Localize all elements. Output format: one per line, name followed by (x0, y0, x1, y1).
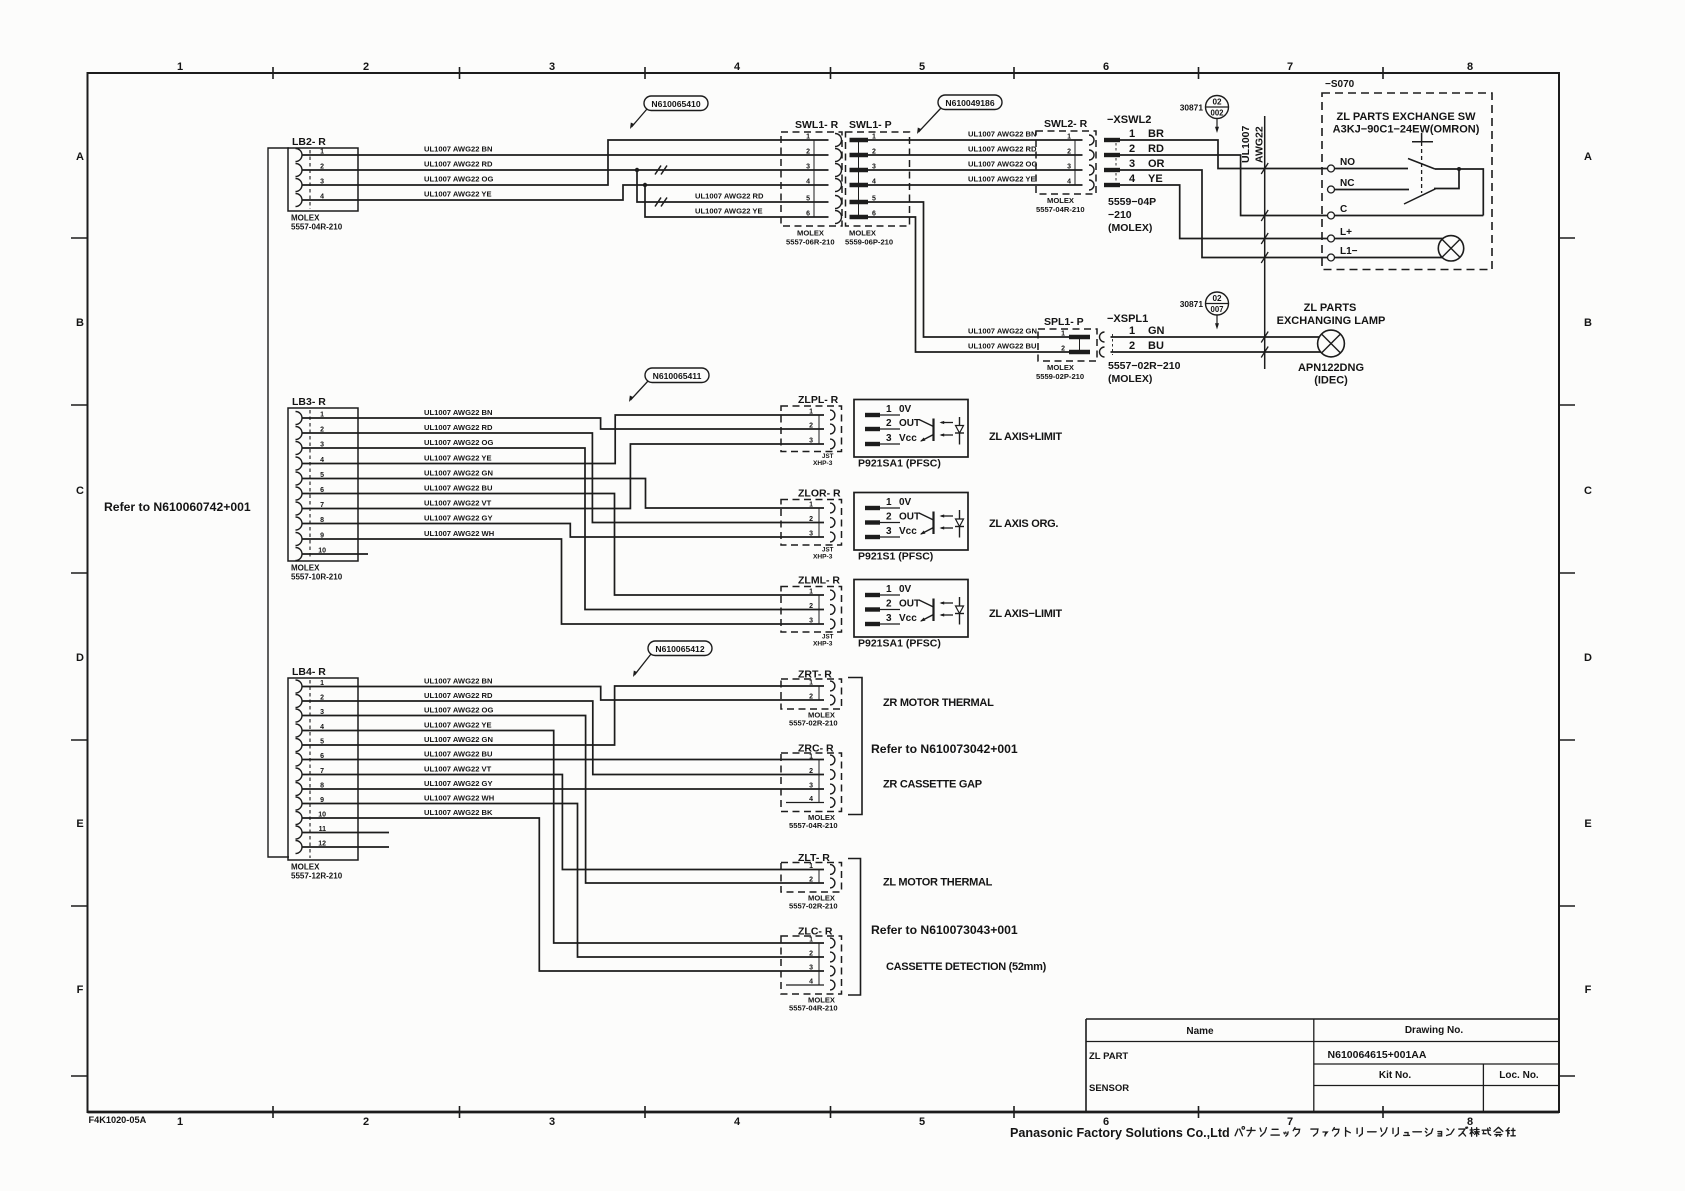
connector ZLML- R (781, 575, 842, 648)
frame row letters left (76, 151, 84, 996)
connector SWL1-P (845, 119, 910, 247)
company name Panasonic Factory Solutions (1010, 1126, 1230, 1140)
svg-text:UL1007 AWG22 GY: UL1007 AWG22 GY (424, 514, 493, 523)
svg-text:002: 002 (1210, 109, 1224, 118)
svg-text:1: 1 (886, 497, 892, 508)
svg-text:F: F (1585, 984, 1592, 996)
svg-text:XHP-3: XHP-3 (813, 554, 833, 561)
svg-text:Refer to N610073043+001: Refer to N610073043+001 (871, 923, 1018, 937)
svg-text:SWL1- R: SWL1- R (795, 119, 839, 131)
svg-text:UL1007: UL1007 (1240, 125, 1252, 163)
connector -XSPL1 receptacle 5557-02R-210 (1100, 313, 1181, 385)
svg-text:4: 4 (734, 61, 741, 73)
svg-text:1: 1 (809, 863, 813, 870)
wire YE XSWL2 pin4 to switch L+ (1120, 185, 1328, 239)
svg-text:3: 3 (809, 438, 813, 445)
svg-text:CASSETTE DETECTION (52mm): CASSETTE DETECTION (52mm) (886, 961, 1047, 973)
wire GY LB4 pin8 to ZRC-R pin3 (302, 779, 824, 789)
svg-text:UL1007 AWG22 RD: UL1007 AWG22 RD (424, 691, 493, 700)
svg-text:2: 2 (809, 951, 813, 958)
svg-text:JST: JST (822, 453, 834, 460)
svg-text:OUT: OUT (899, 418, 920, 429)
frame row letters right (1584, 151, 1592, 996)
wire RD LB3 pin2 to ZLOR-R pin2 (302, 423, 824, 523)
svg-text:02: 02 (1212, 98, 1222, 107)
svg-text:(IDEC): (IDEC) (1314, 375, 1348, 387)
wire YE branch to SWL1-R pin6 (645, 185, 829, 217)
svg-text:UL1007 AWG22 BU: UL1007 AWG22 BU (424, 484, 493, 493)
stub wire LB4 pin12 (302, 846, 389, 848)
switch title ZL PARTS EXCHANGE SW (1333, 111, 1480, 136)
svg-text:6: 6 (806, 211, 810, 218)
svg-text:EXCHANGING LAMP: EXCHANGING LAMP (1277, 315, 1386, 327)
connector LB3-R (288, 396, 358, 582)
svg-text:5559-06P-210: 5559-06P-210 (845, 238, 893, 247)
svg-text:UL1007 AWG22 OG: UL1007 AWG22 OG (424, 706, 493, 715)
svg-text:1: 1 (1061, 331, 1065, 338)
svg-text:ZRT- R: ZRT- R (798, 669, 832, 681)
svg-text:UL1007 AWG22 RD: UL1007 AWG22 RD (695, 192, 764, 201)
svg-text:1: 1 (809, 409, 813, 416)
svg-text:UL1007 AWG22 VT: UL1007 AWG22 VT (424, 765, 492, 774)
svg-text:5: 5 (919, 1116, 925, 1128)
svg-text:UL1007 AWG22 BU: UL1007 AWG22 BU (424, 750, 493, 759)
svg-text:N610065411: N610065411 (653, 371, 702, 381)
wire YE LB4 pin4 to ZLC-R pin1 (302, 721, 824, 944)
frame column numbers bottom (177, 1116, 1473, 1128)
svg-text:30871: 30871 (1180, 299, 1204, 309)
svg-text:3: 3 (886, 526, 892, 537)
svg-text:2: 2 (1067, 149, 1071, 156)
svg-text:JST: JST (822, 634, 834, 641)
svg-text:A: A (1584, 151, 1592, 163)
connector SPL1-P (1036, 316, 1097, 381)
svg-text:UL1007 AWG22 BU: UL1007 AWG22 BU (968, 342, 1037, 351)
svg-text:3: 3 (809, 965, 813, 972)
svg-text:2: 2 (809, 768, 813, 775)
wire BN LB2 pin1 to SWL1-R pin2 (302, 145, 829, 156)
svg-text:UL1007 AWG22 BN: UL1007 AWG22 BN (424, 408, 493, 417)
svg-text:UL1007 AWG22 OG: UL1007 AWG22 OG (424, 438, 493, 447)
svg-text:1: 1 (809, 754, 813, 761)
frame column ticks bottom (273, 1106, 1383, 1118)
wire BN SWL1-P pin1 to SWL2-R pin1 (868, 130, 1083, 141)
svg-text:1: 1 (809, 589, 813, 596)
svg-text:A: A (76, 151, 84, 163)
svg-text:B: B (76, 317, 84, 329)
svg-text:UL1007 AWG22 BN: UL1007 AWG22 BN (968, 130, 1037, 139)
svg-text:BR: BR (1148, 128, 1164, 140)
svg-text:UL1007 AWG22 YE: UL1007 AWG22 YE (968, 175, 1036, 184)
stub wire LB3 pin10 (302, 553, 368, 555)
svg-text:N610049186: N610049186 (945, 98, 994, 108)
wire WH LB3 pin9 to ZLML-R pin3 (302, 529, 824, 624)
svg-text:3: 3 (809, 783, 813, 790)
wire GY LB3 pin8 to ZLOR-R pin3 (302, 514, 824, 538)
junction dot YE branch (643, 183, 647, 187)
revision balloon 30871 02/002 (1180, 96, 1229, 134)
svg-text:2: 2 (886, 418, 892, 429)
svg-text:E: E (76, 818, 83, 830)
svg-text:1: 1 (177, 61, 183, 73)
harness bus line grouping LB2/LB3/LB4 (268, 148, 289, 857)
svg-text:UL1007 AWG22 WH: UL1007 AWG22 WH (424, 529, 494, 538)
svg-text:N610065412: N610065412 (655, 644, 704, 654)
wire WH LB4 pin9 to ZLC-R pin2 (302, 794, 824, 958)
svg-text:5557-12R-210: 5557-12R-210 (291, 872, 343, 881)
svg-text:2: 2 (809, 603, 813, 610)
callout balloon N610049186 (938, 95, 1002, 110)
wire YE LB3 pin4 to ZLPL-R pin1 (302, 415, 824, 464)
svg-text:UL1007 AWG22 VT: UL1007 AWG22 VT (424, 499, 492, 508)
switch plunger (1412, 133, 1433, 193)
connector ZLT-R (781, 852, 842, 911)
svg-text:Vcc: Vcc (899, 613, 917, 624)
svg-text:E: E (1584, 818, 1591, 830)
switch terminal L+ (1328, 227, 1444, 242)
wire OG LB4 pin3 to ZLT-R pin2 (302, 706, 824, 884)
connector ZRT-R (781, 669, 842, 728)
switch terminal NC (1328, 178, 1410, 193)
svg-text:3: 3 (886, 613, 892, 624)
svg-text:5557-04R-210: 5557-04R-210 (291, 223, 343, 232)
connector SWL1-R (781, 119, 842, 247)
drawing frame border (88, 73, 1560, 1112)
svg-text:3: 3 (806, 164, 810, 171)
stub wire LB4 pin11 (302, 832, 389, 834)
title block table (1086, 1019, 1559, 1112)
svg-text:1: 1 (886, 584, 892, 595)
svg-text:2: 2 (806, 149, 810, 156)
svg-text:ZLOR- R: ZLOR- R (798, 488, 841, 500)
svg-text:UL1007 AWG22 RD: UL1007 AWG22 RD (968, 145, 1037, 154)
wire VT LB4 pin7 to ZLT-R pin1 (302, 765, 824, 870)
svg-text:UL1007 AWG22 GN: UL1007 AWG22 GN (424, 735, 493, 744)
wire SWL1-P pin6 to SPL1-P pin2 (868, 217, 1069, 352)
svg-text:ZR MOTOR THERMAL: ZR MOTOR THERMAL (883, 697, 994, 709)
svg-text:2: 2 (1129, 143, 1135, 155)
photosensor P921SA1 (PFSC) (854, 400, 968, 470)
svg-text:MOLEX: MOLEX (849, 229, 876, 238)
wire OG SWL1-P pin3 to SWL2-R pin3 (868, 160, 1083, 171)
svg-text:3: 3 (809, 531, 813, 538)
svg-text:2: 2 (1061, 346, 1065, 353)
svg-text:UL1007 AWG22 BN: UL1007 AWG22 BN (424, 145, 493, 154)
svg-text:8: 8 (1467, 1116, 1473, 1128)
svg-text:1: 1 (809, 937, 813, 944)
svg-text:P921SA1 (PFSC): P921SA1 (PFSC) (858, 638, 941, 650)
svg-text:(MOLEX): (MOLEX) (1108, 222, 1152, 234)
svg-text:5559−04P: 5559−04P (1108, 196, 1156, 208)
svg-text:Refer to N610073042+001: Refer to N610073042+001 (871, 742, 1018, 756)
svg-text:2: 2 (886, 599, 892, 610)
svg-text:AWG22: AWG22 (1254, 126, 1266, 163)
svg-text:−XSPL1: −XSPL1 (1107, 313, 1148, 325)
svg-text:3: 3 (549, 61, 555, 73)
svg-text:UL1007 AWG22 OG: UL1007 AWG22 OG (424, 175, 493, 184)
svg-text:D: D (76, 652, 84, 664)
svg-text:UL1007 AWG22 BN: UL1007 AWG22 BN (424, 677, 493, 686)
switch enclosure -S070 dashed box (1322, 79, 1492, 270)
svg-text:YE: YE (1148, 173, 1163, 185)
svg-text:8: 8 (1467, 61, 1473, 73)
svg-text:5: 5 (806, 196, 810, 203)
svg-text:N610064615+001AA: N610064615+001AA (1328, 1049, 1427, 1061)
svg-text:XHP-3: XHP-3 (813, 641, 833, 648)
svg-text:OUT: OUT (899, 599, 920, 610)
svg-text:P921SA1 (PFSC): P921SA1 (PFSC) (858, 458, 941, 470)
wire OG LB3 pin3 to ZLML-R pin2 (302, 438, 824, 610)
svg-text:B: B (1584, 317, 1592, 329)
svg-text:1: 1 (1129, 325, 1135, 337)
wire RD SWL1-P pin2 to SWL2-R pin2 (868, 145, 1083, 156)
svg-text:ZLC- R: ZLC- R (798, 926, 833, 938)
svg-text:3: 3 (886, 433, 892, 444)
svg-text:LB4- R: LB4- R (292, 666, 326, 678)
svg-text:UL1007 AWG22 RD: UL1007 AWG22 RD (424, 160, 493, 169)
svg-text:UL1007 AWG22 WH: UL1007 AWG22 WH (424, 794, 494, 803)
svg-text:Vcc: Vcc (899, 526, 917, 537)
svg-text:XHP-3: XHP-3 (813, 460, 833, 467)
group bracket ZR sensors (848, 678, 862, 815)
svg-text:ZR CASSETTE GAP: ZR CASSETTE GAP (883, 779, 982, 791)
svg-text:02: 02 (1212, 294, 1222, 303)
connector ZLC-R (781, 926, 842, 1013)
svg-text:MOLEX: MOLEX (291, 863, 320, 872)
switch terminal NO (1328, 157, 1409, 172)
svg-text:N610065410: N610065410 (651, 99, 700, 109)
svg-text:F: F (77, 984, 84, 996)
connector ZLOR- R (781, 488, 842, 561)
svg-text:ZL PART: ZL PART (1089, 1051, 1128, 1062)
wire RD XSWL2 pin2 to switch C (1120, 155, 1328, 216)
photosensor P921S1 (PFSC) (854, 493, 968, 563)
svg-text:0V: 0V (899, 497, 912, 508)
svg-text:Vcc: Vcc (899, 433, 917, 444)
callout balloon N610065410 (644, 96, 708, 111)
switch common link (1434, 169, 1483, 216)
svg-text:ZLT- R: ZLT- R (798, 852, 830, 864)
svg-text:ZL AXIS−LIMIT: ZL AXIS−LIMIT (989, 608, 1062, 620)
svg-text:Refer to N610060742+001: Refer to N610060742+001 (104, 500, 251, 514)
svg-text:−S070: −S070 (1325, 79, 1355, 90)
svg-text:LB2- R: LB2- R (292, 136, 326, 148)
switch NC contact blade (1404, 189, 1436, 204)
svg-text:4: 4 (1129, 173, 1136, 185)
svg-text:SWL2- R: SWL2- R (1044, 118, 1088, 130)
svg-text:L+: L+ (1340, 227, 1352, 238)
svg-text:(MOLEX): (MOLEX) (1108, 373, 1152, 385)
svg-text:2: 2 (809, 423, 813, 430)
junction dot RD branch (635, 168, 639, 172)
svg-text:UL1007 AWG22 YE: UL1007 AWG22 YE (424, 190, 492, 199)
wire SWL1-P pin5 to SPL1-P pin1 (868, 202, 1069, 337)
wire RD branch to SWL1-R pin5 (637, 170, 829, 207)
svg-text:P921S1 (PFSC): P921S1 (PFSC) (858, 551, 933, 563)
svg-text:2: 2 (886, 512, 892, 523)
svg-text:UL1007 AWG22 GN: UL1007 AWG22 GN (968, 327, 1037, 336)
svg-text:C: C (1584, 485, 1592, 497)
svg-text:5557-04R-210: 5557-04R-210 (789, 1004, 838, 1013)
wire YE LB2 pin4 to SWL1-R pin4 (302, 185, 829, 200)
svg-text:MOLEX: MOLEX (1047, 196, 1074, 205)
svg-text:ZLML- R: ZLML- R (798, 575, 840, 587)
svg-text:A3KJ−90C1−24EW(OMRON): A3KJ−90C1−24EW(OMRON) (1333, 124, 1480, 136)
lamp ZL PARTS EXCHANGING LAMP (1277, 302, 1386, 387)
svg-text:MOLEX: MOLEX (1047, 363, 1074, 372)
connector -XSWL2 plug 5559-04P-210 (1104, 114, 1165, 234)
svg-text:ZL AXIS+LIMIT: ZL AXIS+LIMIT (989, 431, 1062, 443)
svg-text:5557-02R-210: 5557-02R-210 (789, 719, 838, 728)
svg-text:Loc. No.: Loc. No. (1499, 1070, 1539, 1081)
wire BN LB4 pin1 to ZRT-R pin2 (302, 677, 824, 701)
svg-text:UL1007 AWG22 BK: UL1007 AWG22 BK (424, 808, 493, 817)
svg-text:MOLEX: MOLEX (291, 564, 320, 573)
svg-text:5557-02R-210: 5557-02R-210 (789, 902, 838, 911)
wire RD LB4 pin2 to ZRC-R pin2 (302, 691, 824, 775)
svg-text:JST: JST (822, 547, 834, 554)
svg-text:SWL1- P: SWL1- P (849, 119, 892, 131)
frame column ticks top (273, 67, 1383, 79)
wire RD LB2 pin2 to SWL1-R pin3 (302, 160, 829, 175)
svg-text:OUT: OUT (899, 512, 920, 523)
svg-text:5: 5 (919, 61, 925, 73)
svg-text:BU: BU (1148, 340, 1164, 352)
svg-text:4: 4 (806, 179, 810, 186)
svg-text:Kit No.: Kit No. (1379, 1070, 1411, 1081)
svg-text:0V: 0V (899, 584, 912, 595)
switch terminal L1- (1328, 246, 1443, 261)
svg-text:30871: 30871 (1180, 103, 1204, 113)
svg-text:2: 2 (363, 61, 369, 73)
svg-text:Drawing No.: Drawing No. (1405, 1025, 1464, 1036)
switch common junction dot (1457, 167, 1461, 171)
svg-text:GN: GN (1148, 325, 1165, 337)
svg-text:3: 3 (549, 1116, 555, 1128)
svg-text:6: 6 (1103, 61, 1109, 73)
svg-text:UL1007 AWG22 OG: UL1007 AWG22 OG (968, 160, 1037, 169)
switch lamp symbol (1438, 236, 1463, 261)
callout balloon N610065411 (645, 368, 709, 383)
revision balloon 30871 02/007 (1180, 292, 1229, 330)
wire OR XSWL2 pin3 to switch L1- (1120, 170, 1328, 258)
svg-text:2: 2 (809, 694, 813, 701)
svg-text:1: 1 (886, 404, 892, 415)
svg-text:MOLEX: MOLEX (797, 229, 824, 238)
svg-text:1: 1 (809, 502, 813, 509)
svg-text:OR: OR (1148, 158, 1165, 170)
svg-text:0V: 0V (899, 404, 912, 415)
svg-text:SPL1- P: SPL1- P (1044, 316, 1084, 328)
frame row ticks left (71, 238, 88, 1076)
svg-text:5559-02P-210: 5559-02P-210 (1036, 372, 1084, 381)
svg-text:−XSWL2: −XSWL2 (1107, 114, 1151, 126)
connector ZRC-R (781, 743, 842, 831)
svg-text:ZLPL- R: ZLPL- R (798, 394, 839, 406)
svg-text:ZL PARTS: ZL PARTS (1304, 302, 1357, 314)
svg-text:007: 007 (1210, 305, 1223, 314)
svg-text:F4K1020-05A: F4K1020-05A (89, 1115, 147, 1125)
svg-text:MOLEX: MOLEX (291, 214, 320, 223)
svg-text:2: 2 (809, 877, 813, 884)
cable bundle line UL1007 AWG22 (1240, 116, 1268, 369)
wire BU LB4 pin6 to ZRC-R pin1 (302, 750, 824, 760)
svg-text:D: D (1584, 652, 1592, 664)
connector SWL2-R (1036, 118, 1096, 214)
svg-text:LB3- R: LB3- R (292, 396, 326, 408)
wire GN XSPL1 pin1 to lamp (1111, 336, 1320, 338)
wire BU XSPL1 pin2 to lamp (1111, 351, 1321, 353)
svg-text:7: 7 (1287, 1116, 1293, 1128)
svg-text:ZL PARTS EXCHANGE SW: ZL PARTS EXCHANGE SW (1337, 111, 1477, 123)
svg-text:SENSOR: SENSOR (1089, 1083, 1129, 1094)
wire BK LB4 pin10 to ZLC-R pin3 (302, 808, 824, 971)
callout balloon N610065412 (648, 641, 712, 656)
svg-text:NC: NC (1340, 178, 1354, 189)
svg-text:L1−: L1− (1340, 246, 1358, 257)
svg-text:UL1007 AWG22 GY: UL1007 AWG22 GY (424, 779, 493, 788)
connector LB4-R (288, 666, 358, 881)
svg-text:UL1007 AWG22 YE: UL1007 AWG22 YE (695, 207, 763, 216)
svg-text:5557-10R-210: 5557-10R-210 (291, 573, 343, 582)
switch NO contact blade (1408, 159, 1435, 170)
svg-text:Panasonic Factory Solutions Co: Panasonic Factory Solutions Co.,Ltd (1010, 1126, 1230, 1140)
svg-text:Name: Name (1186, 1026, 1214, 1037)
svg-text:5557-04R-210: 5557-04R-210 (1036, 205, 1085, 214)
svg-text:C: C (76, 485, 84, 497)
svg-text:1: 1 (1067, 134, 1071, 141)
svg-text:4: 4 (734, 1116, 741, 1128)
svg-text:UL1007 AWG22 RD: UL1007 AWG22 RD (424, 423, 493, 432)
photosensor P921SA1 (PFSC) (854, 580, 968, 650)
svg-text:3: 3 (809, 618, 813, 625)
svg-text:UL1007 AWG22 YE: UL1007 AWG22 YE (424, 454, 492, 463)
svg-text:1: 1 (806, 134, 810, 141)
svg-text:RD: RD (1148, 143, 1164, 155)
svg-text:ZL AXIS ORG.: ZL AXIS ORG. (989, 518, 1058, 530)
frame row ticks right (1558, 238, 1575, 1076)
svg-text:5557-06R-210: 5557-06R-210 (786, 238, 835, 247)
connector LB2-R (288, 136, 358, 232)
wire OG LB2 pin3 to SWL1-R pin1 (302, 140, 829, 185)
svg-text:4: 4 (1067, 179, 1071, 186)
svg-text:2: 2 (1129, 340, 1135, 352)
wire YE SWL1-P pin4 to SWL2-R pin4 (868, 175, 1083, 186)
svg-text:UL1007 AWG22 YE: UL1007 AWG22 YE (424, 721, 492, 730)
svg-text:1: 1 (809, 680, 813, 687)
frame column numbers top (177, 61, 1473, 73)
svg-text:1: 1 (177, 1116, 183, 1128)
connector ZLPL- R (781, 394, 842, 467)
svg-text:5557-04R-210: 5557-04R-210 (789, 821, 838, 830)
group bracket ZL sensors (848, 859, 861, 996)
svg-text:UL1007 AWG22 GN: UL1007 AWG22 GN (424, 469, 493, 478)
svg-text:2: 2 (363, 1116, 369, 1128)
wire BU LB3 pin6 to ZLML-R pin1 (302, 484, 824, 596)
svg-text:NO: NO (1340, 157, 1355, 168)
svg-text:C: C (1340, 204, 1347, 215)
svg-text:7: 7 (1287, 61, 1293, 73)
switch terminal C (1328, 204, 1484, 219)
svg-text:ZL MOTOR THERMAL: ZL MOTOR THERMAL (883, 877, 993, 889)
company name Japanese text (vector glyphs) (1235, 1127, 1515, 1137)
svg-text:2: 2 (809, 516, 813, 523)
svg-text:−210: −210 (1108, 209, 1132, 221)
svg-text:ZRC- R: ZRC- R (798, 743, 834, 755)
svg-text:3: 3 (1067, 164, 1071, 171)
wire BN LB3 pin1 to ZLPL-R pin2 (302, 408, 824, 429)
wire BR XSWL2 pin1 to switch NO (1120, 140, 1328, 169)
